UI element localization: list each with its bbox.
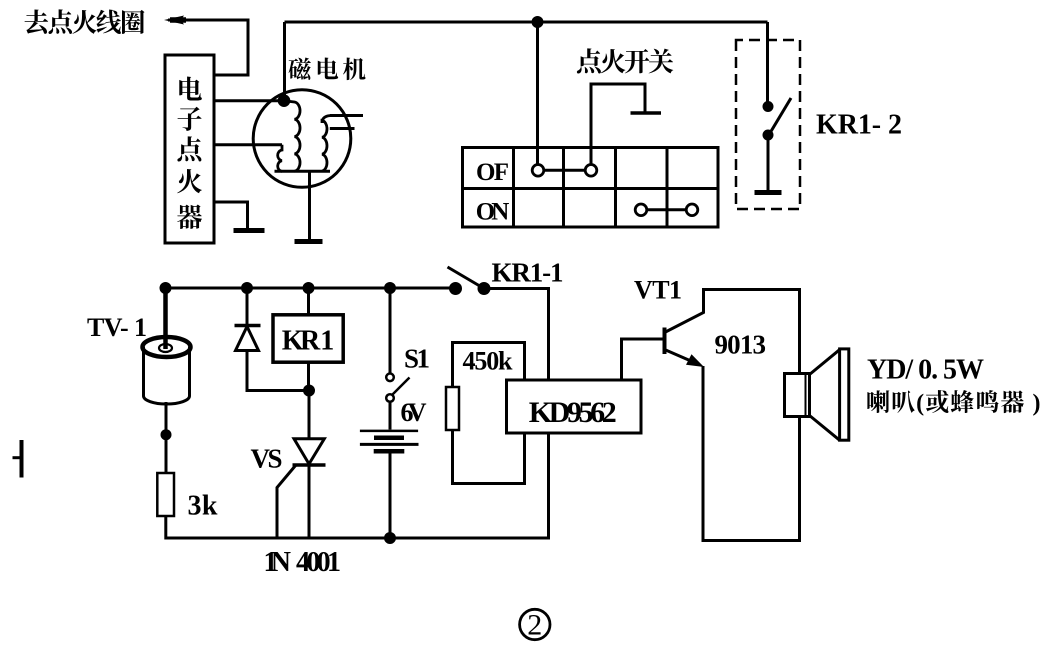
- svg-text:去点火线圈: 去点火线圈: [24, 4, 146, 40]
- svg-text:4001: 4001: [296, 547, 341, 578]
- svg-text:2: 2: [527, 609, 542, 642]
- svg-text:KD9562: KD9562: [529, 396, 617, 429]
- svg-text:9013: 9013: [715, 330, 767, 360]
- svg-text:ON: ON: [476, 199, 510, 226]
- svg-text:点火开关: 点火开关: [576, 42, 674, 79]
- svg-text:3k: 3k: [188, 491, 218, 522]
- svg-text:YD/ 0. 5W: YD/ 0. 5W: [867, 354, 984, 385]
- svg-text:VT1: VT1: [634, 276, 682, 305]
- svg-text:器: 器: [176, 198, 202, 235]
- svg-text:TV- 1: TV- 1: [87, 313, 147, 342]
- svg-text:喇叭(或蜂鸣器 ): 喇叭(或蜂鸣器 ): [866, 383, 1041, 418]
- svg-text:1N: 1N: [264, 547, 292, 578]
- svg-text:磁电机: 磁电机: [288, 51, 367, 85]
- svg-text:VS: VS: [251, 443, 283, 473]
- svg-text:KR1-1: KR1-1: [492, 258, 564, 288]
- svg-text:S1: S1: [404, 344, 430, 374]
- svg-text:450k: 450k: [463, 347, 514, 376]
- svg-text:火: 火: [176, 162, 202, 199]
- svg-text:6V: 6V: [401, 398, 427, 427]
- svg-text:KR1- 2: KR1- 2: [816, 110, 902, 141]
- svg-text:OF: OF: [476, 159, 509, 186]
- svg-text:KR 1: KR 1: [282, 326, 335, 357]
